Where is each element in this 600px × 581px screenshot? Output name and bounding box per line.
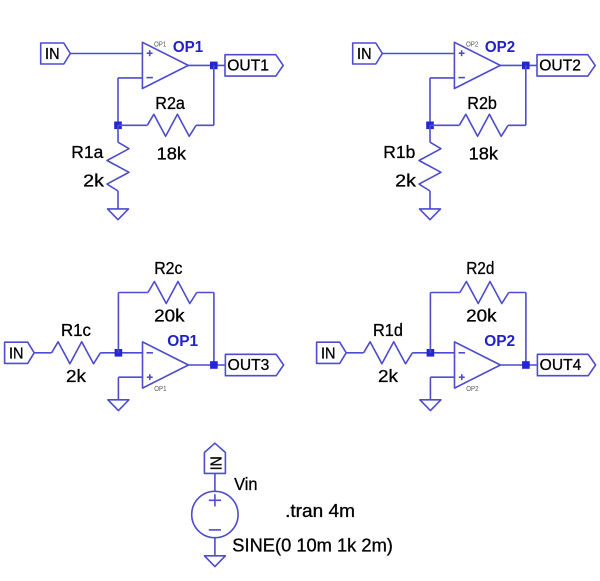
svg-text:R2d: R2d <box>466 258 494 278</box>
svg-text:OP2: OP2 <box>485 39 515 56</box>
svg-text:20k: 20k <box>154 306 185 326</box>
svg-text:R1a: R1a <box>71 142 103 162</box>
svg-text:OP1: OP1 <box>154 386 166 393</box>
wire down to ground <box>429 377 431 400</box>
flag IN (net label above Vin, pointing up) <box>204 443 225 473</box>
svg-text:18k: 18k <box>157 144 187 164</box>
resistor R2a 18k <box>147 114 196 136</box>
svg-text:.tran 4m: .tran 4m <box>285 500 355 521</box>
svg-text:R2b: R2b <box>467 93 497 113</box>
svg-text:IN: IN <box>9 346 24 363</box>
node junction inverting input <box>427 349 435 357</box>
svg-text:OP2: OP2 <box>466 42 478 49</box>
svg-text:R2a: R2a <box>155 93 185 113</box>
wire op-amp output to OUT <box>188 364 225 366</box>
flag IN (input, row2) <box>5 342 35 363</box>
wire feedback down to output <box>213 293 215 366</box>
wire down to feedback node <box>429 78 431 125</box>
Vin minus sign <box>209 529 221 531</box>
wire feedback up <box>429 293 431 353</box>
resistor R1a 2k <box>107 142 129 191</box>
wire op-amp output to OUT2 <box>500 64 537 66</box>
op-amp U2 OP2 (inverting) <box>455 342 501 388</box>
wire down to feedback node <box>117 78 119 125</box>
wire IN to op-amp + input <box>382 53 454 55</box>
wire IN to R1d <box>346 352 363 354</box>
svg-text:20k: 20k <box>466 306 497 326</box>
node junction feedback <box>114 122 122 130</box>
svg-text:OP2: OP2 <box>466 386 478 393</box>
node junction output <box>522 361 530 369</box>
wire R2c right lead <box>197 292 214 294</box>
wire down to ground <box>117 377 119 400</box>
wire R2b left lead <box>430 124 459 126</box>
svg-text:OP1: OP1 <box>173 39 203 56</box>
wire - input to feedback node <box>118 77 142 79</box>
wire R2a left lead <box>118 124 147 126</box>
flag IN (input, row2) <box>317 342 347 363</box>
svg-text:R1c: R1c <box>61 320 91 340</box>
node junction output <box>210 62 218 70</box>
node junction output <box>210 361 218 369</box>
wire R1a bottom lead <box>117 191 119 209</box>
svg-text:18k: 18k <box>469 144 499 164</box>
wire flag to Vin top <box>214 473 216 491</box>
svg-text:SINE(0 10m 1k 2m): SINE(0 10m 1k 2m) <box>232 535 393 556</box>
svg-text:2k: 2k <box>83 170 104 190</box>
svg-text:OUT2: OUT2 <box>539 58 581 75</box>
op-amp U2 OP2 <box>454 42 500 88</box>
flag OUT2 <box>537 55 595 76</box>
flag OUT4 <box>537 354 595 375</box>
svg-text:OP2: OP2 <box>484 333 515 350</box>
resistor R1c 2k <box>52 342 101 364</box>
resistor R2d 20k <box>460 282 509 304</box>
ground (R1a) <box>108 209 129 220</box>
wire R2b right lead <box>508 124 526 126</box>
flag OUT3 <box>225 354 283 375</box>
wire R2d left lead <box>430 292 460 294</box>
resistor R1d 2k <box>364 342 413 364</box>
svg-text:R2c: R2c <box>154 258 182 278</box>
wire IN to R1c <box>34 352 51 354</box>
wire R2c left lead <box>118 292 147 294</box>
node junction output <box>522 62 530 70</box>
node junction inverting input <box>115 349 123 357</box>
flag IN (input, row1 col2) <box>353 43 383 64</box>
svg-text:OUT3: OUT3 <box>228 357 270 374</box>
wire R1b bottom lead <box>429 191 431 209</box>
wire op-amp output to OUT <box>500 364 537 366</box>
svg-text:IN: IN <box>321 346 336 363</box>
wire feedback up <box>117 293 119 353</box>
svg-text:2k: 2k <box>378 366 398 386</box>
svg-text:Vin: Vin <box>234 474 257 494</box>
wire feedback down to output <box>525 293 527 366</box>
wire R2a right lead <box>196 124 214 126</box>
svg-text:OUT1: OUT1 <box>227 58 269 75</box>
wire output down to feedback <box>525 65 527 125</box>
wire R1c to op-amp - input <box>100 352 142 354</box>
wire + input to ground <box>118 376 142 378</box>
Vin plus sign <box>209 499 221 501</box>
wire R1b top lead <box>429 125 431 142</box>
wire R1d to op-amp - input <box>412 352 454 354</box>
svg-text:IN: IN <box>45 46 60 63</box>
ground (+ input) <box>108 400 129 411</box>
wire R2d right lead <box>509 292 526 294</box>
flag OUT1 <box>225 55 283 76</box>
svg-text:OUT4: OUT4 <box>540 357 582 374</box>
resistor R2c 20k <box>148 282 197 304</box>
svg-text:OP1: OP1 <box>167 333 198 350</box>
svg-text:2k: 2k <box>395 170 416 190</box>
wire R1a top lead <box>117 125 119 142</box>
svg-text:2k: 2k <box>66 366 86 386</box>
resistor R1b 2k <box>419 142 441 191</box>
ground (+ input) <box>420 400 441 411</box>
ground (R1b) <box>420 209 441 220</box>
wire output down to feedback <box>213 65 215 125</box>
wire + input to ground <box>430 376 454 378</box>
svg-text:IN: IN <box>209 456 226 470</box>
voltage source Vin (circle) <box>192 491 238 537</box>
op-amp U1 OP1 <box>142 42 188 88</box>
ground (Vin) <box>204 556 225 567</box>
svg-text:R1d: R1d <box>373 320 403 340</box>
wire op-amp output to OUT1 <box>188 64 225 66</box>
node junction feedback <box>426 122 434 130</box>
svg-text:R1b: R1b <box>383 142 415 162</box>
wire IN to op-amp + input <box>70 53 142 55</box>
resistor R2b 18k <box>459 114 508 136</box>
svg-text:IN: IN <box>357 46 372 63</box>
svg-text:OP1: OP1 <box>154 42 166 49</box>
wire - input to feedback node <box>430 77 454 79</box>
op-amp U1 OP1 (inverting) <box>143 342 189 388</box>
flag IN (input, row1 col1) <box>41 43 71 64</box>
wire Vin bottom to ground <box>214 538 216 556</box>
